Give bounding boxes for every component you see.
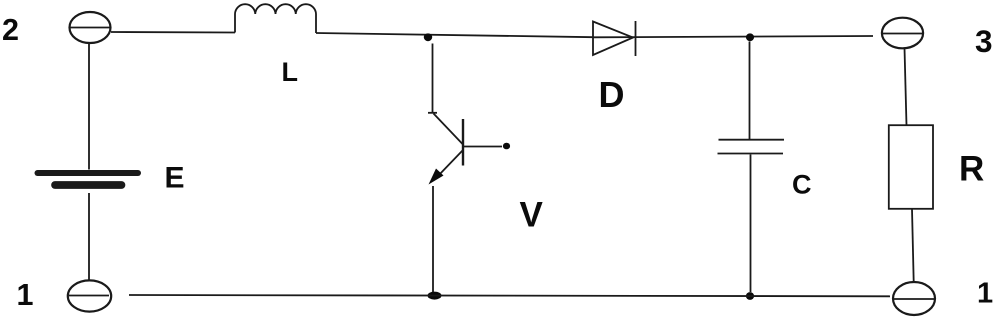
wire terminal 3 to resistor xyxy=(905,48,907,126)
terminal 1 (bottom-left) xyxy=(68,280,111,311)
wire battery to terminal 1 xyxy=(88,193,90,281)
node junction right bottom xyxy=(746,292,754,300)
wire diode to terminal 3 xyxy=(593,36,873,37)
wire inductor to diode xyxy=(316,33,593,37)
resistor R xyxy=(889,125,933,209)
terminal 2 (top-left) xyxy=(70,12,111,43)
bottom rail wire xyxy=(129,295,890,296)
capacitor C xyxy=(718,140,785,154)
wire junction to capacitor xyxy=(749,42,751,140)
transistor V xyxy=(428,113,510,185)
svg-text:R: R xyxy=(959,150,984,189)
svg-text:L: L xyxy=(282,57,299,87)
wire terminal 2 to battery xyxy=(88,43,90,170)
node junction bottom (emitter node) xyxy=(428,292,442,300)
svg-text:C: C xyxy=(792,170,812,200)
terminal 3 (top-right) xyxy=(882,18,923,49)
svg-text:E: E xyxy=(165,162,185,195)
svg-text:1: 1 xyxy=(17,278,34,312)
wire capacitor to bottom rail xyxy=(750,155,752,293)
node junction right top (capacitor node) xyxy=(746,33,754,41)
wire junction to transistor collector xyxy=(432,44,434,113)
svg-text:V: V xyxy=(520,196,544,235)
node junction top (collector node) xyxy=(424,33,432,41)
svg-text:2: 2 xyxy=(2,13,19,47)
inductor L xyxy=(235,4,316,33)
svg-text:3: 3 xyxy=(975,23,993,59)
wire transistor emitter to bottom rail xyxy=(432,186,434,295)
svg-text:1: 1 xyxy=(977,278,993,310)
diode D xyxy=(593,21,636,56)
wire resistor to terminal 1 xyxy=(912,209,914,282)
terminal 1 (bottom-right) xyxy=(893,282,935,315)
battery E xyxy=(38,173,139,185)
svg-text:D: D xyxy=(599,74,625,115)
wire terminal2 to inductor xyxy=(111,31,235,34)
